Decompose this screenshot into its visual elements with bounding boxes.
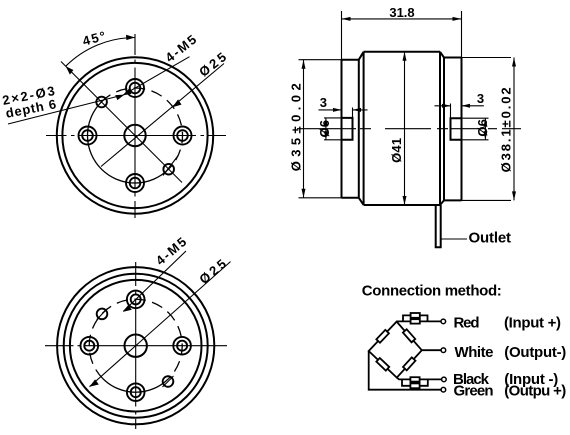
svg-text:Green: Green: [454, 383, 494, 400]
svg-text:(Output-): (Output-): [504, 344, 566, 361]
svg-text:Outlet: Outlet: [469, 229, 512, 246]
svg-text:3: 3: [320, 95, 327, 110]
svg-text:Ø6: Ø6: [317, 120, 332, 138]
svg-text:31.8: 31.8: [389, 5, 414, 20]
svg-text:(Outpu +): (Outpu +): [504, 383, 566, 400]
svg-text:(Input +): (Input +): [504, 315, 561, 332]
svg-text:Ø6: Ø6: [475, 119, 490, 136]
svg-text:3: 3: [477, 91, 484, 106]
svg-text:Ø38.1±0.02: Ø38.1±0.02: [499, 87, 514, 172]
svg-text:White: White: [455, 344, 494, 361]
svg-text:Ø41: Ø41: [389, 138, 404, 163]
svg-text:Red: Red: [454, 315, 480, 332]
svg-text:Connection method:: Connection method:: [362, 283, 502, 300]
